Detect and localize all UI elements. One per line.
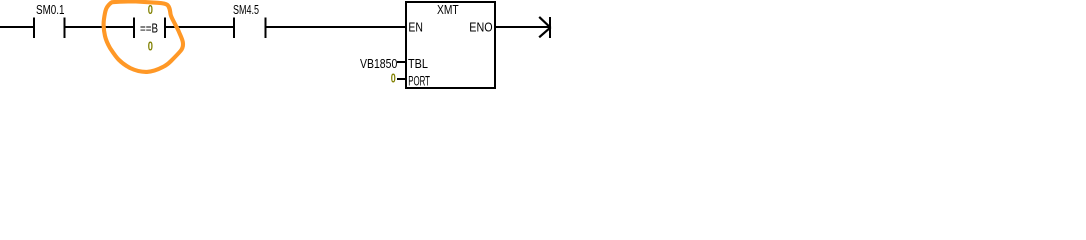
wire SM4.5 to XMT box EN <box>266 26 405 28</box>
svg-text:PORT: PORT <box>408 74 430 89</box>
arrow head chevron <box>540 18 550 37</box>
wire ENO to arrow <box>496 26 549 28</box>
svg-text:ENO: ENO <box>469 21 492 35</box>
svg-text:SM0.1: SM0.1 <box>36 3 65 17</box>
svg-text:EN: EN <box>408 21 423 35</box>
wire stub 0 to PORT pin <box>397 78 405 80</box>
box XMT left edge <box>405 1 407 89</box>
wire SM0.1 to comparator <box>66 26 133 28</box>
svg-text:SM4.5: SM4.5 <box>233 3 259 17</box>
comparator ==B left bar <box>133 17 135 38</box>
wire stub VB1850 to TBL pin <box>397 61 405 63</box>
svg-text:0: 0 <box>391 71 396 85</box>
svg-text:XMT: XMT <box>437 3 459 17</box>
svg-text:0: 0 <box>148 40 153 54</box>
svg-text:==B: ==B <box>140 21 158 35</box>
box XMT right edge <box>494 1 496 89</box>
contact SM4.5 left bar <box>233 17 235 38</box>
wire left rail to SM0.1 <box>0 26 33 28</box>
contact SM0.1 left bar <box>33 17 35 38</box>
box XMT top edge <box>405 1 496 3</box>
annotation orange circle <box>104 1 183 71</box>
comparator ==B right bar <box>164 17 166 38</box>
svg-text:TBL: TBL <box>408 57 428 71</box>
arrow terminator bar <box>549 17 551 38</box>
svg-text:VB1850: VB1850 <box>360 57 397 71</box>
contact SM0.1 right bar <box>64 17 66 38</box>
box XMT bottom edge <box>405 87 496 89</box>
contact SM4.5 right bar <box>264 17 266 38</box>
wire comparator to SM4.5 <box>166 26 233 28</box>
svg-text:0: 0 <box>148 3 153 17</box>
